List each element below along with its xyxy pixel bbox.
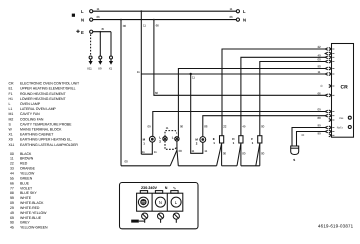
svg-text:11: 11 [142,150,145,154]
svg-text:88: 88 [204,125,208,129]
CR pin wire labels [302,45,324,137]
cable tabs [140,191,147,194]
svg-text:22: 22 [318,45,322,49]
svg-text:WHITE-RED: WHITE-RED [20,206,40,210]
svg-text:WHITE-BLUE: WHITE-BLUE [20,216,42,220]
svg-text:ROUND HEATING ELEMENT: ROUND HEATING ELEMENT [20,92,66,96]
svg-text:L1: L1 [9,107,13,111]
svg-text:66: 66 [97,15,101,19]
wire 00 black: N rail down to neutral bus [120,19,122,21]
svg-text:66: 66 [156,24,160,28]
svg-text:CAVITY FAN: CAVITY FAN [20,112,40,116]
svg-text:90: 90 [10,221,14,225]
svg-text:11: 11 [318,70,321,74]
W label tag [131,220,139,223]
svg-text:55: 55 [10,176,14,180]
wire 90 grey: CR pin to oven lamp L [178,69,326,137]
svg-text:00: 00 [261,152,265,156]
wire 09 white-black: CR pin to M1 [153,112,327,137]
terminal earth screw [138,197,148,207]
svg-text:E: E [81,30,84,35]
svg-text:45: 45 [10,226,14,230]
svg-text:66: 66 [10,181,14,185]
svg-text:BLUE SKY: BLUE SKY [20,191,37,195]
cavity temperature probe S [291,128,327,163]
wire E earth link (yellow-green 45) [93,31,111,33]
wire 00: E1 down to bus [221,143,223,166]
earthing X11 (lateral lampholder, dashed optional) [87,34,93,70]
svg-text:CR: CR [341,85,349,91]
svg-text:EARTHING CABINET: EARTHING CABINET [20,133,54,137]
svg-text:X1: X1 [9,133,13,137]
wire 11 U-link under M1 [141,142,152,154]
svg-text:00: 00 [261,125,265,129]
svg-text:WHITE: WHITE [20,196,32,200]
svg-text:CR: CR [9,82,14,86]
svg-text:49: 49 [10,211,14,215]
earthing X1 (cabinet) [109,32,113,71]
svg-text:66: 66 [155,91,159,95]
svg-text:L: L [81,9,84,14]
svg-text:11: 11 [230,7,233,11]
svg-text:4619-619-03871: 4619-619-03871 [318,224,354,229]
earthing X9 (upper heating element) [98,31,102,71]
svg-text:22: 22 [10,162,14,166]
svg-text:44: 44 [10,172,14,176]
svg-text:WHITE-BLACK: WHITE-BLACK [20,201,44,205]
svg-text:S: S [293,158,295,162]
svg-text:GREEN: GREEN [20,176,33,180]
wire 49 white-yellow: CR pin to H1 [241,57,327,135]
svg-text:77: 77 [10,186,14,190]
svg-text:LOWER HEATING ELEMENT: LOWER HEATING ELEMENT [20,97,66,101]
svg-text:00: 00 [125,160,129,164]
wire 00: H1 down to bus [240,143,242,166]
svg-text:BROWN: BROWN [20,157,34,161]
wire 11 U-link under M2 from junction [191,74,203,153]
legend component designators [9,82,81,147]
svg-text:ORANGE: ORANGE [20,167,36,171]
svg-text:OVEN LAMP: OVEN LAMP [20,102,41,106]
svg-text:Vss: Vss [339,117,344,120]
terminal block body [137,193,183,211]
svg-text:H1: H1 [9,97,13,101]
wire 22 red: CR pin to E1 [222,49,327,136]
svg-text:X1: X1 [109,67,113,71]
svg-text:L: L [243,9,246,14]
svg-text:66: 66 [230,15,234,19]
node L (right) [236,10,239,13]
svg-text:11: 11 [192,76,195,80]
svg-text:EARTHING UPPER HEATING EL.: EARTHING UPPER HEATING EL. [20,138,72,142]
svg-text:UPPER HEATING ELEMENT/GRILL: UPPER HEATING ELEMENT/GRILL [20,87,76,91]
mains terminal marker W (black square) [72,14,75,17]
wire 00 black: CR pin to F1 [260,62,327,136]
CR connector pins [325,48,331,137]
svg-text:X11: X11 [9,143,15,147]
svg-text:X11: X11 [87,67,92,71]
svg-text:F1: F1 [9,92,13,96]
svg-text:E1: E1 [9,87,13,91]
svg-text:YELLOW-GREEN: YELLOW-GREEN [20,226,48,230]
dashed wire L1 bottom link [165,141,177,149]
svg-text:BLUE: BLUE [20,181,30,185]
svg-text:11: 11 [143,24,146,28]
electronic oven control unit CR [332,44,354,138]
svg-text:WHITE-YELLOW: WHITE-YELLOW [20,211,47,215]
svg-text:88: 88 [318,116,322,120]
legend wire colour codes [10,152,48,230]
junction dot 11/M2 feed [190,73,192,75]
svg-text:99: 99 [318,132,322,136]
svg-text:N: N [159,200,162,205]
svg-text:90: 90 [318,65,322,69]
svg-text:230-240V: 230-240V [141,186,158,190]
svg-text:11: 11 [166,126,169,130]
svg-text:69: 69 [10,216,14,220]
svg-text:L: L [9,102,11,106]
svg-text:45: 45 [101,27,105,31]
svg-text:COOLING FAN: COOLING FAN [20,117,44,121]
svg-text:LATERAL OVEN LAMP: LATERAL OVEN LAMP [20,107,56,111]
terminal L screw [171,197,181,207]
lower screws [142,213,180,223]
svg-text:MAINS TERMINAL BLOCK: MAINS TERMINAL BLOCK [20,128,62,132]
svg-text:∿: ∿ [173,185,177,190]
svg-text:11: 11 [154,150,157,154]
svg-text:00: 00 [242,152,246,156]
svg-text:99: 99 [318,124,322,128]
svg-text:ELECTRONIC OVEN CONTROL UNIT: ELECTRONIC OVEN CONTROL UNIT [20,82,80,86]
svg-text:N: N [81,18,84,23]
svg-text:00: 00 [223,152,227,156]
svg-text:09: 09 [10,201,14,205]
wire 66 blue: N rail down then right to CR [153,19,155,21]
wire 00: F1 down to bus [259,143,261,166]
svg-text:X9: X9 [98,67,102,71]
wire N rail (blue 66) [93,19,236,21]
svg-text:M1: M1 [9,112,14,116]
svg-text:BLACK: BLACK [20,152,32,156]
svg-text:99: 99 [10,196,14,200]
svg-text:88: 88 [10,191,14,195]
svg-text:EARTHING LATERAL LAMPHOLDER: EARTHING LATERAL LAMPHOLDER [20,143,78,147]
svg-text:M2: M2 [9,117,14,121]
svg-text:09: 09 [148,125,152,129]
svg-text:YELLOW: YELLOW [20,172,35,176]
terminal N screw [155,197,165,207]
svg-text:00: 00 [318,58,322,62]
svg-text:33: 33 [10,167,14,171]
wire 11 brown: junction to CR pin [141,73,326,75]
svg-text:X9: X9 [9,138,13,142]
svg-text:00: 00 [179,149,183,153]
svg-text:00: 00 [10,152,14,156]
svg-text:RxTx: RxTx [337,126,344,129]
svg-text:90: 90 [180,125,184,129]
svg-text:N: N [243,18,246,23]
svg-text:66: 66 [318,92,322,96]
svg-text:09: 09 [318,108,322,112]
svg-text:49: 49 [242,125,246,129]
svg-text:00: 00 [123,24,127,28]
CR pin number marks [333,49,335,136]
terminal block W enclosure [120,183,199,229]
node N (right) [236,18,239,21]
svg-text:GREY: GREY [20,221,30,225]
svg-text:11: 11 [204,149,207,153]
svg-text:RED: RED [20,162,28,166]
svg-text:11: 11 [10,157,14,161]
svg-text:VIOLET: VIOLET [20,186,33,190]
wire 00: lamp L down to bus (vertical + diagonal) [176,141,178,150]
svg-text:CAVITY TEMPERATURE PROBE: CAVITY TEMPERATURE PROBE [20,122,72,126]
svg-text:11: 11 [137,70,140,74]
wire neutral bus 00 [121,165,170,167]
svg-text:29: 29 [10,206,14,210]
wire 88 blue-sky: CR pin to M2 [203,116,327,137]
svg-text:N: N [165,186,168,190]
wire 11 brown: L rail down to M1 / junction [140,10,142,12]
svg-text:11: 11 [191,149,194,153]
svg-text:22: 22 [223,125,227,129]
svg-text:11: 11 [97,7,100,11]
wire L rail (brown 11) [93,10,236,12]
